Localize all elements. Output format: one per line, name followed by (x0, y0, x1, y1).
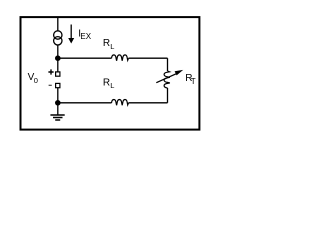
svg-text:L: L (110, 42, 114, 51)
svg-text:0: 0 (34, 76, 38, 85)
svg-text:R: R (103, 38, 110, 49)
svg-text:T: T (191, 77, 196, 86)
svg-text:EX: EX (80, 32, 91, 41)
svg-text:R: R (103, 78, 110, 89)
svg-text:L: L (110, 81, 114, 90)
